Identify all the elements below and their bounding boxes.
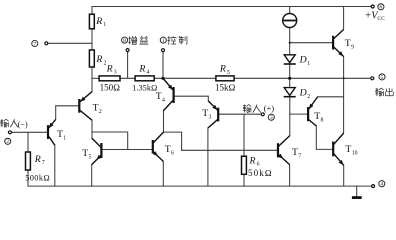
pin number 4 [379,181,385,188]
terminal ring 6 [371,5,374,8]
wire: T10 emitter down [343,165,345,186]
wire: T7 collector up to D2 [289,97,291,136]
wire: mid rail to D2 anode [289,78,291,87]
svg-text:3: 3 [114,70,117,76]
wire: T6 emitter down to rail [162,161,164,186]
svg-text:9: 9 [351,45,354,51]
svg-text:7: 7 [33,41,36,47]
wire: R6 branch down [243,114,245,156]
svg-text:5: 5 [227,70,230,76]
svg-text:15kΩ: 15kΩ [215,83,236,93]
wire: R1 bottom to R2 top [91,29,93,50]
svg-text:T: T [156,91,162,102]
junction dot T9 base [289,42,291,44]
svg-text:T: T [202,108,208,119]
pin number 3 [268,114,274,121]
wire: rail to current source [289,7,291,14]
current source [283,14,297,28]
label output (shuchu) [375,88,383,96]
wire: R1 top stub [91,7,93,15]
svg-text:T: T [165,144,171,155]
svg-text:R: R [138,63,145,74]
svg-text:150Ω: 150Ω [100,82,121,92]
pin number 5 [379,74,385,81]
svg-text:CC: CC [377,16,385,22]
svg-text:D: D [299,87,307,98]
wire: R2 bottom down to T2 collector [91,67,93,92]
wire: D1 cathode to mid rail [289,64,291,78]
pin number 6 [378,4,384,11]
resistor R3 [99,63,120,92]
wire: mid rail segment R3 to R4 [120,77,135,79]
label input plus (shuru) [243,104,251,112]
svg-text:7: 7 [42,160,45,166]
wire: T9 emitter to T10 collector vertical [343,57,345,133]
wire: T9 collector up [343,7,345,30]
svg-text:50kΩ: 50kΩ [248,168,273,178]
svg-text:R: R [249,155,256,166]
wire: T3 collector down to rail [207,128,209,186]
terminal ring 3 [261,113,264,116]
label control (kongzhi) [168,36,177,44]
svg-text:T: T [292,147,298,158]
svg-text:T: T [314,111,320,122]
terminal ring 4 [372,185,375,188]
junction dot rail-D1-D2 [288,77,291,80]
wire: mid rail segment R2 to R3 [92,77,99,79]
svg-text:10: 10 [352,150,358,156]
transistor T6 [153,132,164,161]
svg-text:T: T [82,148,88,159]
transistor T7 [278,136,290,165]
pin number 2 [5,138,11,145]
wire: T2 emitter down to T5 collector [91,120,93,138]
svg-text:8: 8 [123,38,126,44]
terminal ring 8 [126,49,129,52]
resistor R2 [89,50,106,67]
wire: T5-T6 base link [101,149,152,151]
wire: R7 bottom [27,170,29,186]
transistor T2 [79,92,92,121]
pin number 7 [32,40,38,47]
wire: T7 base line [182,149,278,151]
terminal ring 7 [45,42,48,45]
wire: T4 collector down [164,111,182,151]
wire: branch to T5 T6 bases [92,132,128,150]
svg-text:T: T [345,38,351,49]
wire: T8 base [290,113,308,115]
pin number 8 [122,37,128,44]
svg-text:1: 1 [63,135,66,141]
svg-text:8: 8 [321,117,324,123]
svg-text:R: R [219,64,226,75]
svg-text:R: R [34,154,41,165]
pin number 1 [160,37,166,44]
svg-text:1: 1 [307,61,310,67]
wire: T3 base to terminal 3 [218,113,261,115]
svg-text:6: 6 [171,151,174,157]
svg-text:4: 4 [380,182,383,188]
junction dot rail-control-T4 [161,77,164,80]
resistor R7 [25,152,50,183]
label input minus (shuru) [0,119,8,127]
svg-text:T: T [93,103,99,114]
ground [352,196,362,199]
wire: current source to D1 [289,28,291,55]
transistor T4 [163,79,173,111]
svg-text:1.35kΩ: 1.35kΩ [132,83,157,92]
svg-text:D: D [299,55,307,66]
svg-text:2: 2 [307,94,310,100]
svg-text:R: R [95,54,102,65]
svg-text:500kΩ: 500kΩ [25,174,50,183]
wire: T1 collector down to rail [54,145,56,186]
resistor R5 [215,64,236,93]
svg-text:4: 4 [147,70,150,76]
svg-text:5: 5 [89,154,92,160]
wire: mid rail segment R4 to R5 [154,77,216,79]
svg-text:5: 5 [381,75,384,81]
svg-text:1: 1 [162,38,165,44]
wire: gain terminal 8 drop [127,52,129,79]
terminal ring 1 [162,49,165,52]
transistor T9 [333,30,344,57]
label +Vcc [365,11,386,23]
wire: mid rail segment R5 to output terminal 5 [234,77,372,79]
wire: T8 collector to output vertical [318,96,344,98]
diode D2 [284,87,311,99]
wire: control terminal 1 drop [162,52,164,79]
wire: T5 emitter down to rail [91,165,93,187]
transistor T8 [308,97,318,126]
transistor T3 [208,101,218,128]
terminal ring 5 [371,77,374,80]
svg-text:(+): (+) [264,103,275,113]
wire: T9 base [290,42,333,44]
svg-text:3: 3 [209,114,212,120]
wire: input minus to T1 base [11,131,47,133]
wire: T1 emitter up to T2 base [56,106,79,120]
resistor R1 [89,14,106,29]
wire: T8 emitter to T10 base [316,126,332,149]
wire: T4 base to T3 emitter corner [174,96,209,101]
svg-text:R: R [95,16,102,27]
diode D1 [284,55,311,67]
svg-text:4: 4 [162,97,165,103]
svg-text:2: 2 [99,109,102,115]
wire: ground stub [356,186,358,196]
junction dot output node [343,77,345,79]
wire: R7 top branch [27,132,29,152]
transistor T5 [92,138,102,165]
resistor R6 [242,155,273,178]
wire: +Vcc top rail [92,6,372,8]
label gain (zengyi) [128,36,136,44]
svg-text:7: 7 [298,153,301,159]
svg-text:R: R [106,63,113,74]
svg-text:2: 2 [6,139,9,145]
wire: terminal 7 horizontal [48,42,92,44]
svg-text:1: 1 [103,22,106,28]
svg-text:T: T [345,144,351,155]
wire: T7 emitter down to rail [289,165,291,187]
svg-text:6: 6 [380,5,383,11]
wire: R6 bottom [243,174,245,186]
wire: bottom rail [28,185,373,187]
resistor R4 [132,63,157,92]
transistor T1 [48,119,56,145]
svg-text:6: 6 [257,162,260,168]
terminal ring 2 [8,131,11,134]
svg-text:T: T [57,129,63,140]
svg-text:3: 3 [270,115,273,121]
transistor T10 [333,133,344,165]
svg-text:(−): (−) [18,120,28,129]
